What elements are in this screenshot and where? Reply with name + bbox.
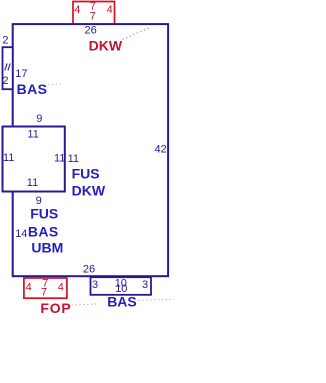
annex box DKW (top red box) (73, 2, 115, 25)
svg-text:4: 4 (74, 4, 80, 16)
main building outline (13, 24, 168, 276)
bottom red box (FOP) (24, 278, 67, 298)
svg-text:3: 3 (142, 279, 148, 291)
leader dotted line BAS bottom (139, 299, 175, 300)
leader dotted line FOP (72, 304, 100, 306)
svg-text:2: 2 (2, 75, 8, 87)
svg-text:3: 3 (92, 279, 98, 291)
svg-text:9: 9 (36, 113, 42, 125)
svg-text:DKW: DKW (72, 183, 106, 199)
svg-text:FUS: FUS (72, 166, 100, 182)
leader dotted line DKW (123, 27, 152, 40)
svg-text:4: 4 (26, 282, 32, 294)
leader dotted line BAS top (48, 84, 64, 86)
svg-text:7: 7 (41, 287, 47, 299)
svg-text:2: 2 (2, 35, 8, 47)
svg-text:17: 17 (15, 68, 27, 80)
svg-text:11: 11 (3, 152, 14, 164)
bottom blue box (BAS) (91, 277, 152, 295)
svg-text:11: 11 (68, 153, 79, 165)
svg-text:BAS: BAS (107, 293, 137, 309)
svg-text:BAS: BAS (28, 223, 59, 239)
svg-text:DKW: DKW (89, 38, 123, 54)
svg-text:BAS: BAS (17, 81, 48, 97)
svg-text:FUS: FUS (30, 206, 58, 222)
svg-text:FOP: FOP (40, 300, 71, 316)
svg-text:4: 4 (58, 282, 64, 294)
svg-text:11: 11 (27, 129, 38, 141)
left square annex box (FUS/DKW) (3, 127, 65, 192)
parallel mark in small rect (5, 63, 10, 70)
svg-text:4: 4 (107, 4, 113, 16)
svg-text:UBM: UBM (31, 239, 63, 255)
svg-text:14: 14 (15, 228, 27, 240)
svg-text:11: 11 (27, 177, 38, 189)
svg-text:11: 11 (54, 153, 65, 165)
svg-text:7: 7 (90, 11, 96, 23)
svg-text:26: 26 (85, 24, 97, 36)
svg-text:26: 26 (83, 263, 95, 275)
left small annex rect (BAS) (3, 47, 13, 89)
svg-text:42: 42 (155, 144, 167, 156)
